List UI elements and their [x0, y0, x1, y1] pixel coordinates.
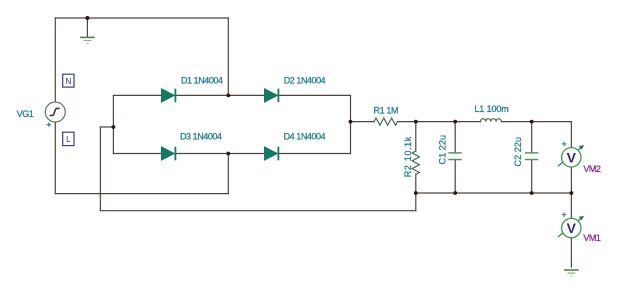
svg-text:D3 1N4004: D3 1N4004 [180, 132, 222, 142]
junction R2 bottom [414, 191, 418, 195]
wire C1 vertical upper [454, 122, 456, 153]
wire VG1 left vertical [54, 18, 56, 194]
junction D1-D2 node [226, 94, 230, 98]
wire stub left of bridge [100, 126, 113, 128]
junction D3-D4 node [226, 152, 230, 156]
wire VG1 bottom horizontal [55, 193, 228, 195]
wire bridge right vertical [350, 95, 352, 153]
svg-text:D4 1N4004: D4 1N4004 [284, 132, 326, 142]
voltmeter VM2 [558, 145, 584, 167]
capacitor C2 [525, 153, 538, 160]
wire D1-D2 row [113, 94, 350, 96]
junction bridge right mid [349, 120, 353, 124]
junction R2 top [414, 120, 418, 124]
wire C1 vertical lower [454, 160, 456, 193]
wire stub down [99, 127, 101, 211]
svg-text:R1 1M: R1 1M [374, 105, 399, 115]
svg-text:D1 1N4004: D1 1N4004 [181, 75, 223, 85]
wire C2 vertical upper [531, 122, 533, 153]
ground top [80, 37, 95, 43]
junction C1 bottom [453, 191, 457, 195]
wire R2 vertical upper [415, 122, 417, 151]
VM1 plus polarity mark [562, 212, 567, 217]
wire top rail VG1 to bridge top [55, 17, 228, 19]
wire bottom rail [416, 192, 572, 194]
svg-text:R2 10.1k: R2 10.1k [403, 136, 413, 177]
diode D2 [265, 89, 279, 103]
wire R2 vertical lower [415, 174, 417, 193]
resistor R2 [412, 151, 419, 174]
wire C2 vertical lower [531, 160, 533, 193]
ground bottom [564, 270, 579, 276]
svg-text:VM2: VM2 [583, 164, 601, 174]
wire riser bottom return to rail [415, 193, 417, 211]
svg-text:C2 22u: C2 22u [513, 137, 523, 167]
svg-text:VM1: VM1 [583, 233, 601, 243]
wire top down-leg to D1/D2 junction [227, 18, 229, 95]
svg-text:C1 22u: C1 22u [438, 135, 448, 165]
voltage generator VG1 [45, 102, 65, 122]
diode D3 [162, 147, 176, 161]
svg-text:V: V [567, 220, 577, 236]
junction VM node [570, 191, 574, 195]
diode D1 [162, 89, 176, 103]
svg-text:N: N [66, 77, 72, 86]
svg-text:D2 1N4004: D2 1N4004 [284, 75, 326, 85]
wire output rail to R1 [351, 121, 375, 123]
wire VM2 vertical [570, 122, 572, 193]
svg-text:V: V [567, 150, 577, 166]
wire ground stub top [86, 18, 88, 37]
junction C2 bottom [530, 191, 534, 195]
junction C2 top [530, 120, 534, 124]
node L terminal box [63, 132, 74, 145]
node N terminal box [63, 74, 74, 87]
inductor L1 [481, 119, 502, 122]
wire L1 to VM2 corner [501, 121, 571, 123]
wire D3-D4 row [113, 153, 350, 155]
diode D4 [265, 147, 279, 161]
VM2 plus polarity mark [562, 142, 567, 147]
junction top ground tap [85, 16, 89, 20]
wire riser to D3/D4 junction [227, 154, 229, 194]
capacitor C1 [448, 153, 461, 160]
junction C1 top [453, 120, 457, 124]
wire VM1 vertical [570, 193, 572, 267]
voltmeter VM1 [558, 216, 584, 238]
wire long bottom return [100, 210, 415, 212]
wire bridge left vertical [112, 95, 114, 153]
wire R1 to L1 [398, 121, 481, 123]
svg-text:L: L [66, 135, 71, 144]
VG1 plus polarity mark [47, 122, 51, 126]
junction bridge left mid [112, 125, 116, 129]
resistor R1 [374, 118, 397, 125]
svg-text:VG1: VG1 [17, 109, 34, 119]
svg-text:L1 100m: L1 100m [474, 104, 508, 114]
